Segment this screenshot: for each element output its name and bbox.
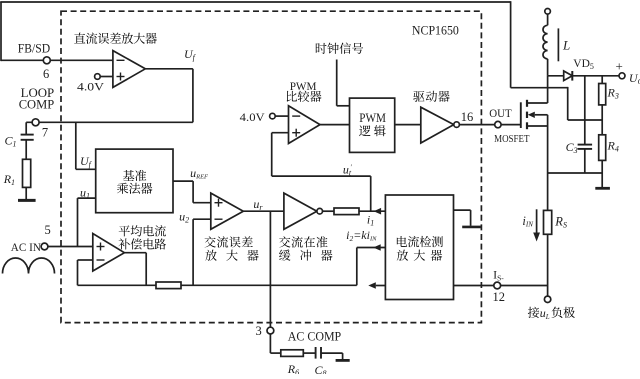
svg-text:L: L bbox=[562, 38, 570, 53]
svg-text:3: 3 bbox=[256, 324, 262, 338]
svg-text:5: 5 bbox=[45, 223, 51, 237]
svg-text:NCP1650: NCP1650 bbox=[412, 22, 459, 37]
svg-text:FB/SD: FB/SD bbox=[18, 42, 50, 56]
svg-text:COMP: COMP bbox=[19, 98, 55, 112]
svg-text:PWM: PWM bbox=[290, 79, 317, 93]
svg-text:AC IN: AC IN bbox=[11, 241, 42, 254]
svg-text:4.0V: 4.0V bbox=[240, 111, 266, 124]
svg-text:MOSFET: MOSFET bbox=[494, 134, 530, 145]
svg-text:4.0V: 4.0V bbox=[77, 80, 105, 93]
svg-text:12: 12 bbox=[493, 290, 506, 304]
svg-text:7: 7 bbox=[42, 126, 48, 140]
svg-text:ut′: ut′ bbox=[343, 162, 352, 177]
svg-text:16: 16 bbox=[461, 110, 474, 124]
svg-text:OUT: OUT bbox=[489, 108, 511, 120]
svg-text:PWM: PWM bbox=[359, 111, 386, 125]
svg-text:6: 6 bbox=[43, 67, 49, 81]
svg-text:AC COMP: AC COMP bbox=[288, 329, 342, 343]
svg-text:+: + bbox=[616, 59, 623, 74]
